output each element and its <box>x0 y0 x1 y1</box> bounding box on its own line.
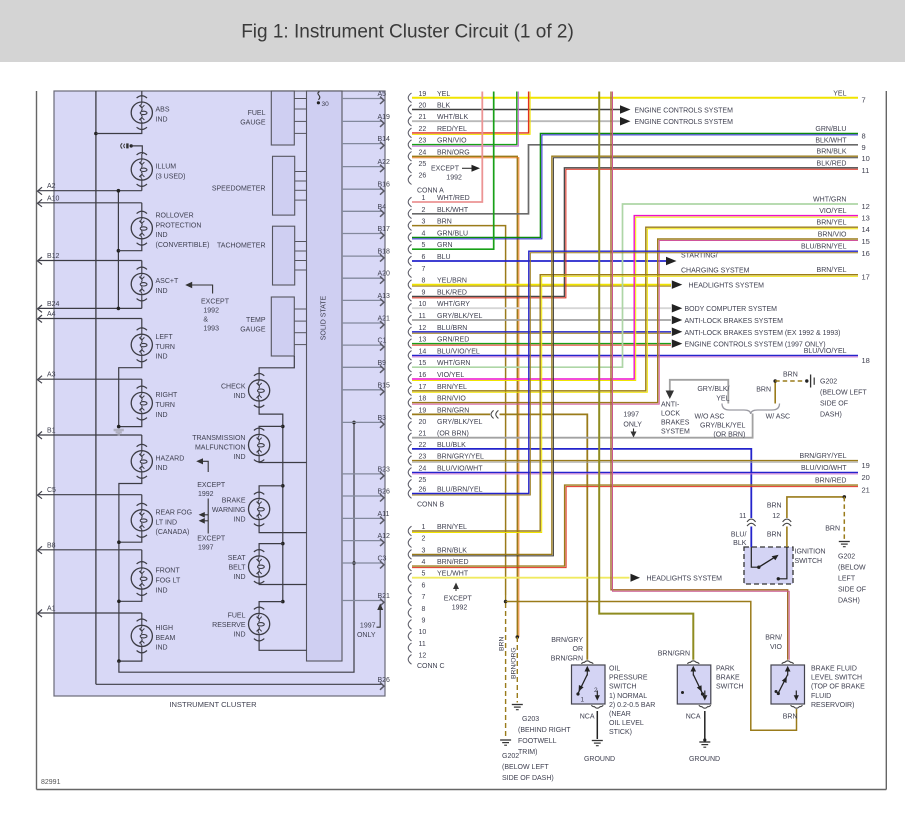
svg-text:A4: A4 <box>47 311 56 318</box>
svg-text:9: 9 <box>422 617 426 624</box>
svg-text:BELT: BELT <box>229 565 247 572</box>
pin B26 cluster bottom edge <box>96 677 390 690</box>
svg-text:B26: B26 <box>378 489 391 496</box>
node seatbelt anode junction <box>281 542 285 546</box>
figure title header bar <box>0 0 905 62</box>
svg-text:ROLLOVER: ROLLOVER <box>156 213 194 220</box>
svg-text:RED/YEL: RED/YEL <box>437 126 467 133</box>
pin B18 cluster right edge <box>342 249 390 262</box>
wire fuel-reserve cathode <box>259 640 306 651</box>
svg-text:11: 11 <box>739 513 746 520</box>
svg-text:BRN: BRN <box>767 532 782 539</box>
svg-text:BRN/YEL: BRN/YEL <box>437 524 467 531</box>
wire front-fog cathode <box>119 594 142 601</box>
svg-text:FOOTWELL: FOOTWELL <box>518 738 557 745</box>
svg-text:SEAT: SEAT <box>228 555 246 562</box>
pin B8 cluster left <box>38 542 142 554</box>
wire GRN B5 exits top <box>412 92 494 250</box>
svg-text:BLU/VIO/WHT: BLU/VIO/WHT <box>801 465 847 472</box>
connector park switch top <box>687 661 699 664</box>
svg-text:7: 7 <box>862 95 866 104</box>
pin B3 cluster right edge <box>342 415 386 428</box>
pin C3 cluster right edge <box>342 556 387 569</box>
svg-text:BRN/BLK: BRN/BLK <box>817 149 847 156</box>
svg-text:BRN/ORG: BRN/ORG <box>437 149 470 156</box>
label CONN B <box>417 502 445 509</box>
wire ABS top <box>141 91 143 97</box>
svg-text:1992: 1992 <box>203 308 219 315</box>
svg-text:1992: 1992 <box>198 491 214 498</box>
pin A-22 connector hook <box>408 126 467 138</box>
lamp ILLUM (3 USED) <box>131 153 185 187</box>
wire BRN/ORG dashed to G203 <box>516 637 518 703</box>
svg-text:10: 10 <box>419 301 427 308</box>
svg-text:(OR BRN): (OR BRN) <box>437 431 469 438</box>
wire BRN dashed to G202 <box>505 595 507 738</box>
pin B-3 connector hook <box>408 219 452 231</box>
wire BRN/ORG A24 down to G203 <box>412 156 519 637</box>
svg-text:BLU: BLU <box>437 254 451 261</box>
svg-text:BRN: BRN <box>783 714 798 721</box>
svg-text:BRN/GRN: BRN/GRN <box>658 651 690 658</box>
svg-text:BLU/VIO/YEL: BLU/VIO/YEL <box>437 348 480 355</box>
svg-text:8: 8 <box>422 278 426 285</box>
lamp CHECK IND <box>221 374 270 408</box>
svg-text:23: 23 <box>419 454 427 461</box>
ground G202 below left dash <box>500 740 554 782</box>
pin B-4 connector hook <box>408 230 468 242</box>
ground G202 right <box>839 542 850 547</box>
svg-text:WHT/GRY: WHT/GRY <box>437 301 470 308</box>
svg-text:G203: G203 <box>522 716 539 723</box>
svg-text:CONN C: CONN C <box>417 663 445 670</box>
note EXCEPT 1997 for REAR FOG <box>197 499 226 552</box>
svg-text:GRN/BLU: GRN/BLU <box>815 126 846 133</box>
svg-text:24: 24 <box>419 149 427 156</box>
label BRN ignition upper <box>767 503 782 510</box>
pin A-24 connector hook <box>408 149 469 161</box>
svg-text:B24: B24 <box>47 301 60 308</box>
svg-text:FRONT: FRONT <box>156 568 181 575</box>
wire ILLUM cathode <box>141 185 143 191</box>
wire GRN/RED B13 to engine 1997 <box>412 339 826 348</box>
pin B24 cluster left <box>38 301 142 313</box>
svg-text:IGNITION: IGNITION <box>795 549 826 556</box>
svg-text:IND: IND <box>233 574 245 581</box>
svg-text:B21: B21 <box>378 593 391 600</box>
label G202 below left side of dash (mid) <box>820 379 867 419</box>
svg-text:BLK/WHT: BLK/WHT <box>815 137 847 144</box>
svg-text:A1: A1 <box>47 606 56 613</box>
node rear-fog cathode junction <box>117 540 121 544</box>
svg-text:19: 19 <box>419 91 427 98</box>
svg-text:30: 30 <box>322 101 330 108</box>
note EXCEPT 1992 for C5 <box>444 583 473 612</box>
svg-text:B8: B8 <box>47 542 56 549</box>
svg-text:19: 19 <box>862 461 870 470</box>
wire BRN dashed to G202 splice <box>775 380 804 382</box>
lamp RIGHT TURN IND <box>131 386 178 420</box>
svg-text:WARNING: WARNING <box>212 507 246 514</box>
pin B-2 connector hook <box>408 207 469 219</box>
pin C-7 connector hook <box>408 594 425 606</box>
wire GRY/BLK/YEL B20 to ASC brace <box>412 414 753 438</box>
wire left-turn cathode <box>119 360 142 426</box>
wire BRN/GRY/YEL B23 to continuation 19 <box>412 453 870 470</box>
temp gauge <box>240 297 306 356</box>
svg-text:EXCEPT: EXCEPT <box>197 536 226 543</box>
svg-text:IND: IND <box>156 465 168 472</box>
lamp TRANSMISSION MALFUNCTION IND <box>192 428 269 462</box>
svg-text:Fig 1: Instrument Cluster Circ: Fig 1: Instrument Cluster Circuit (1 of … <box>241 22 574 43</box>
svg-text:YEL/BRN: YEL/BRN <box>437 278 467 285</box>
node turn lamps ground junction <box>117 425 121 429</box>
note 1997 ONLY for GRY/BLK/YEL <box>623 412 642 438</box>
wire BRN/BLK C3 to continuation 10 <box>412 149 870 556</box>
svg-text:1993: 1993 <box>203 326 219 333</box>
svg-text:A20: A20 <box>378 271 391 278</box>
ignition switch contacts <box>751 547 787 581</box>
svg-text:IND: IND <box>156 288 168 295</box>
wire BRN ignition pin 12 <box>787 497 843 547</box>
pin C-6 connector hook <box>408 582 425 594</box>
pin B4 cluster right edge <box>342 204 386 217</box>
label BRN above dash <box>783 372 798 379</box>
pin C-9 connector hook <box>408 617 425 629</box>
connector pin 12 ignition <box>772 513 791 526</box>
pin A-19 connector hook <box>408 91 450 103</box>
pin A2 cluster left <box>38 183 142 195</box>
wire BRN w/ ASC branch <box>774 381 776 404</box>
svg-text:BLU/BRN/YEL: BLU/BRN/YEL <box>437 487 483 494</box>
pin B-24 connector hook <box>408 465 483 477</box>
wire B8 to front-fog top <box>141 550 143 563</box>
svg-text:LEFT: LEFT <box>838 576 856 583</box>
svg-text:GRN/BLU: GRN/BLU <box>437 230 468 237</box>
label BLU/BLK ignition <box>731 532 747 548</box>
svg-text:6: 6 <box>422 254 426 261</box>
oil switch contacts <box>576 666 600 704</box>
wire BLU/BRN B12 to anti-lock ex92-93 <box>412 328 841 337</box>
pin B-1 connector hook <box>408 195 469 207</box>
pin A13 cluster right edge <box>342 293 390 306</box>
connector brake fluid top <box>782 661 794 664</box>
node trans anode junction <box>281 425 285 429</box>
label BRN/ORG rotated <box>511 647 518 679</box>
svg-text:RIGHT: RIGHT <box>156 392 179 399</box>
wire BLK/RED B9 to continuation 11 <box>412 160 869 298</box>
svg-text:WHT/GRN: WHT/GRN <box>813 197 846 204</box>
illumination source symbol <box>121 143 133 148</box>
svg-text:16: 16 <box>419 372 427 379</box>
svg-text:A13: A13 <box>378 293 391 300</box>
pin A11 cluster right edge <box>342 511 390 524</box>
svg-text:21: 21 <box>862 486 870 495</box>
svg-text:BRN: BRN <box>783 372 798 379</box>
wire BRN/GRN B19 to oil pressure switch <box>412 414 587 659</box>
pin C-11 connector hook <box>408 641 426 653</box>
svg-text:HEADLIGHTS SYSTEM: HEADLIGHTS SYSTEM <box>647 576 723 583</box>
svg-text:VIO/YEL: VIO/YEL <box>819 208 846 215</box>
svg-text:25: 25 <box>419 477 427 484</box>
wire B12 to asct top <box>141 261 143 269</box>
svg-text:BRN/: BRN/ <box>765 635 782 642</box>
svg-text:(BEHIND RIGHT: (BEHIND RIGHT <box>518 727 571 734</box>
wire BRN/GRN to park brake switch <box>599 92 693 660</box>
svg-text:YEL: YEL <box>716 396 729 403</box>
svg-text:BRN/ORG: BRN/ORG <box>511 647 518 679</box>
svg-text:BRN/GRY/YEL: BRN/GRY/YEL <box>437 454 484 461</box>
pin B21 cluster right edge <box>342 593 390 606</box>
label W/ ASC <box>766 413 791 420</box>
pin B-18 connector hook <box>408 396 466 408</box>
wire WHT/RED B1 exits top <box>412 92 482 203</box>
pin B-19 connector hook <box>408 407 469 419</box>
pin B9 cluster right edge <box>342 360 386 373</box>
wire WHT/BLK A21 to engine controls <box>412 117 733 126</box>
svg-text:BLK: BLK <box>733 540 747 547</box>
pin A-23 connector hook <box>408 138 467 150</box>
svg-text:LEFT: LEFT <box>156 334 174 341</box>
svg-text:SWITCH: SWITCH <box>716 684 744 691</box>
pin B-26 connector hook <box>408 487 482 499</box>
svg-text:CONN B: CONN B <box>417 502 445 509</box>
wire BRN/RED C4 to continuation 21 <box>412 485 858 567</box>
svg-text:BRAKES: BRAKES <box>661 420 690 427</box>
wire BRN/YEL B17 to continuation 14 <box>412 220 870 393</box>
svg-text:10: 10 <box>419 629 427 636</box>
wire brake cathode <box>259 525 306 533</box>
label INSTRUMENT CLUSTER <box>169 700 257 709</box>
lamp FUEL RESERVE IND <box>212 607 270 641</box>
pin B17 cluster right edge <box>342 226 390 239</box>
svg-text:26: 26 <box>419 487 427 494</box>
svg-text:GROUND: GROUND <box>689 756 720 763</box>
pin C-10 connector hook <box>408 629 426 641</box>
wire seatbelt cathode <box>259 582 306 585</box>
lamp ROLLOVER PROTECTION IND <box>131 211 209 249</box>
node BRN/ORG splice <box>516 635 520 639</box>
svg-text:GRY/BLK/YEL: GRY/BLK/YEL <box>437 313 483 320</box>
svg-text:SIDE OF: SIDE OF <box>838 587 866 594</box>
svg-text:(BELOW LEFT: (BELOW LEFT <box>820 390 867 397</box>
lamp HAZARD IND <box>131 444 184 478</box>
svg-text:GRN/VIO: GRN/VIO <box>437 138 467 145</box>
wire oil switch NCA to ground <box>596 711 598 739</box>
svg-text:IND: IND <box>233 632 245 639</box>
svg-text:26: 26 <box>419 173 427 180</box>
svg-text:17: 17 <box>862 273 870 282</box>
svg-text:BLU/: BLU/ <box>731 532 747 539</box>
svg-text:LEVEL SWITCH: LEVEL SWITCH <box>811 675 862 682</box>
svg-text:9: 9 <box>862 143 866 152</box>
svg-text:RESERVOIR): RESERVOIR) <box>811 702 854 709</box>
svg-text:18: 18 <box>419 396 427 403</box>
svg-text:IND: IND <box>156 117 168 124</box>
wire VIO/YEL B16 to continuation 13 <box>412 208 870 380</box>
svg-text:B9: B9 <box>378 360 387 367</box>
svg-text:BLU/BRN/YEL: BLU/BRN/YEL <box>801 244 847 251</box>
wire check anode <box>259 356 294 375</box>
svg-text:BRN/BLK: BRN/BLK <box>437 547 467 554</box>
svg-text:(NEAR: (NEAR <box>609 711 631 718</box>
wire check cathode chain <box>259 406 283 602</box>
svg-text:TEMP: TEMP <box>246 317 266 324</box>
wire GRN/BLU B4 to continuation 8 <box>412 126 866 239</box>
svg-text:INSTRUMENT CLUSTER: INSTRUMENT CLUSTER <box>169 700 257 709</box>
wire WHT/GRN B15 to continuation 12 <box>412 197 870 368</box>
pin C-12 connector hook <box>408 652 426 664</box>
svg-text:G202: G202 <box>820 379 837 386</box>
label BRN/VIO brake fluid <box>765 635 782 652</box>
wire A4 to left-turn top <box>141 319 143 330</box>
svg-text:3: 3 <box>422 547 426 554</box>
pin B-10 connector hook <box>408 301 470 313</box>
wire BLK A20 to engine controls <box>412 105 733 114</box>
pin B-8 connector hook <box>408 278 467 290</box>
svg-text:2: 2 <box>422 536 426 543</box>
pin B-9 connector hook <box>408 289 467 301</box>
label PARK BRAKE SWITCH <box>716 666 744 691</box>
pin B-12 connector hook <box>408 325 467 337</box>
svg-text:20: 20 <box>419 419 427 426</box>
svg-text:(CONVERTIBLE): (CONVERTIBLE) <box>156 242 210 249</box>
svg-text:ONLY: ONLY <box>623 422 642 429</box>
svg-text:C5: C5 <box>47 487 56 494</box>
svg-text:CHARGING SYSTEM: CHARGING SYSTEM <box>681 268 750 275</box>
svg-text:A22: A22 <box>378 159 391 166</box>
svg-text:BRN: BRN <box>767 503 782 510</box>
wire A1 to high-beam top <box>141 613 143 620</box>
svg-text:22: 22 <box>419 442 427 449</box>
ground park brake switch <box>689 742 720 763</box>
svg-text:B18: B18 <box>378 249 391 256</box>
svg-text:BRN/GRY/YEL: BRN/GRY/YEL <box>800 453 847 460</box>
pin A-25 connector hook <box>408 161 426 173</box>
oil pressure switch box <box>572 665 606 704</box>
label BRN left of vertical <box>756 387 771 394</box>
svg-text:BODY COMPUTER SYSTEM: BODY COMPUTER SYSTEM <box>685 306 778 313</box>
svg-text:OIL: OIL <box>609 666 620 673</box>
lamp LEFT TURN IND <box>131 328 175 362</box>
svg-text:BLK/WHT: BLK/WHT <box>437 207 469 214</box>
connector park switch bottom NCA <box>686 705 711 720</box>
wire BLU/BLK B22 to ignition switch <box>412 449 751 547</box>
label ANTI-LOCK BRAKES SYSTEM target <box>661 402 690 436</box>
svg-text:STARTING/: STARTING/ <box>681 253 718 260</box>
pin B-14 connector hook <box>408 348 480 360</box>
node rollover cathode junction <box>117 249 121 253</box>
svg-text:OIL LEVEL: OIL LEVEL <box>609 720 644 727</box>
wire C5 to rear-fog top <box>141 495 143 505</box>
lamp HIGH BEAM IND <box>131 619 175 653</box>
svg-text:12: 12 <box>862 202 870 211</box>
svg-text:NCA: NCA <box>580 714 595 721</box>
ground G203 <box>512 705 571 757</box>
svg-text:GRY/BLK/: GRY/BLK/ <box>697 386 729 393</box>
svg-text:1997: 1997 <box>623 412 639 419</box>
svg-text:GRN: GRN <box>437 242 453 249</box>
wire right-turn cathode <box>119 419 142 427</box>
svg-text:13: 13 <box>862 214 870 223</box>
svg-text:EXCEPT: EXCEPT <box>197 482 226 489</box>
wire park switch NCA to ground <box>703 711 706 742</box>
connector oil switch bottom NCA <box>580 705 604 720</box>
wire ILLUM feed <box>131 146 142 154</box>
wire trans anode <box>259 426 283 429</box>
pin A3 cluster left <box>38 372 142 384</box>
label CONN A <box>417 188 444 195</box>
svg-text:IND: IND <box>156 354 168 361</box>
svg-text:TACHOMETER: TACHOMETER <box>217 243 265 250</box>
svg-text:GROUND: GROUND <box>584 756 615 763</box>
svg-text:YEL/WHT: YEL/WHT <box>437 571 469 578</box>
svg-text:(OR BRN): (OR BRN) <box>713 432 745 439</box>
lamp FRONT FOG LT IND <box>131 562 181 596</box>
svg-text:A3: A3 <box>47 372 56 379</box>
pin A-21 connector hook <box>408 114 468 126</box>
svg-text:FLUID: FLUID <box>811 693 831 700</box>
svg-text:14: 14 <box>862 225 870 234</box>
svg-text:OR: OR <box>573 646 584 653</box>
svg-text:CHECK: CHECK <box>221 384 246 391</box>
svg-text:W/ ASC: W/ ASC <box>766 413 791 420</box>
svg-text:3: 3 <box>422 219 426 226</box>
splice G202 symbol <box>805 375 814 388</box>
park brake switch box <box>677 665 711 704</box>
svg-text:EXCEPT: EXCEPT <box>444 596 473 603</box>
svg-text:5: 5 <box>422 242 426 249</box>
speedometer <box>212 156 307 215</box>
svg-text:IND: IND <box>156 232 168 239</box>
svg-text:PRESSURE: PRESSURE <box>609 675 648 682</box>
svg-text:(BELOW: (BELOW <box>838 565 866 572</box>
svg-text:12: 12 <box>419 325 427 332</box>
svg-text:REAR FOG: REAR FOG <box>156 510 193 517</box>
svg-text:B1: B1 <box>47 428 56 435</box>
svg-text:VIO: VIO <box>770 644 783 651</box>
svg-text:BEAM: BEAM <box>156 635 176 642</box>
node BRN ignition G202 dot <box>843 495 847 499</box>
svg-text:11: 11 <box>862 166 870 175</box>
wire hazard cathode <box>119 477 142 661</box>
svg-text:WHT/GRN: WHT/GRN <box>437 360 470 367</box>
svg-text:5: 5 <box>422 571 426 578</box>
svg-text:G202: G202 <box>838 554 855 561</box>
node rail-ABS junction <box>94 132 98 136</box>
label BRN/GRN park <box>658 651 690 658</box>
svg-text:IND: IND <box>156 412 168 419</box>
pin B-11 connector hook <box>408 313 482 325</box>
label GRY/BLK/YEL w/o asc <box>697 386 729 403</box>
note EXCEPT 1992 for HAZARD <box>196 458 226 498</box>
label W/O ASC GRY/BLK/YEL OR BRN <box>695 413 746 438</box>
pin B1 cluster left <box>38 428 142 440</box>
svg-text:A11: A11 <box>378 511 390 518</box>
svg-text:(TOP OF BRAKE: (TOP OF BRAKE <box>811 684 865 691</box>
svg-text:1: 1 <box>422 524 426 531</box>
wire rollover cathode <box>118 244 141 251</box>
svg-text:BRN/YEL: BRN/YEL <box>817 267 847 274</box>
wire seatbelt anode <box>259 544 283 551</box>
svg-text:7: 7 <box>422 266 426 273</box>
svg-text:NCA: NCA <box>686 714 701 721</box>
pin C-4 connector hook <box>408 559 468 571</box>
ground oil pressure switch <box>584 741 615 764</box>
svg-text:GAUGE: GAUGE <box>240 120 266 127</box>
svg-text:4: 4 <box>422 559 426 566</box>
wire rail to B26 bottom <box>95 683 97 685</box>
